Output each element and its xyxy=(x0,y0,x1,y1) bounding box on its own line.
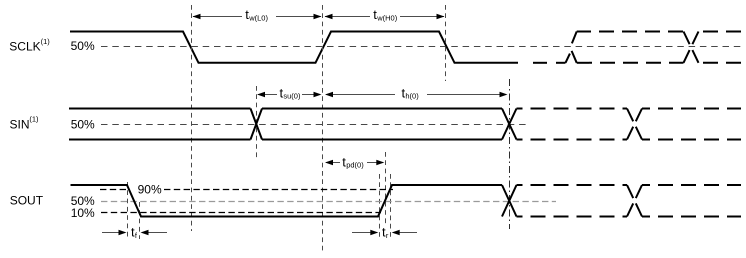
SCLK possible rising edge (dashed crossover style) xyxy=(566,32,577,63)
svg-text:50%: 50% xyxy=(71,39,95,53)
svg-text:w(L0): w(L0) xyxy=(248,13,268,22)
SCLK low dashed segment xyxy=(533,62,547,64)
svg-text:SIN: SIN xyxy=(10,118,30,132)
SOUT 90% dashed line xyxy=(100,189,393,191)
svg-text:50%: 50% xyxy=(71,117,95,131)
label tr xyxy=(382,225,389,240)
SOUT waveform solid segment xyxy=(71,185,503,217)
svg-text:f: f xyxy=(135,231,138,240)
dimension arrow tr xyxy=(352,230,417,236)
SIN top rail solid xyxy=(69,108,502,110)
vertical guide at SIN transition x=256 xyxy=(256,86,258,160)
SOUT crossover X2 (dashed style) xyxy=(627,185,642,217)
svg-text:pd(0): pd(0) xyxy=(346,161,364,170)
dimension arrow tw(L0) xyxy=(193,14,322,20)
svg-text:su(0): su(0) xyxy=(283,92,301,101)
SIN bottom rail solid xyxy=(69,139,502,141)
vertical guide at SCLK falling edge x=191 xyxy=(191,5,193,231)
label tw(H0) xyxy=(373,7,397,22)
label tpd(0) xyxy=(342,155,364,170)
label th(0) xyxy=(402,86,420,101)
SIN 50% reference dashed line xyxy=(101,124,529,126)
svg-text:90%: 90% xyxy=(138,182,162,196)
SOUT 10% dashed line xyxy=(101,212,381,214)
vertical guide at SCLK rising edge x=323 xyxy=(322,5,324,252)
dimension arrow tsu(0) xyxy=(257,92,322,98)
tick at SOUT rise 10% x=379.3 xyxy=(379,174,381,240)
dimension arrow tpd(0) xyxy=(325,160,384,166)
SIN crossover X2 xyxy=(502,109,517,140)
dimension arrow tw(H0) xyxy=(325,14,445,20)
tick at SOUT fall start x=127.2 xyxy=(127,182,129,239)
vertical guide at SCLK 2nd falling edge x=446 xyxy=(445,5,447,81)
signal name SIN xyxy=(10,115,40,132)
SIN trailing dashed rails xyxy=(642,109,741,140)
svg-text:SCLK: SCLK xyxy=(9,39,40,53)
svg-text:(1): (1) xyxy=(41,37,51,46)
label tsu(0) xyxy=(280,86,301,101)
SCLK waveform solid segment xyxy=(70,32,518,63)
signal name SCLK xyxy=(9,37,50,54)
SCLK 50% reference dashed line xyxy=(101,46,743,48)
vertical guide at SOUT 50% crossing x=385.5 xyxy=(385,152,387,226)
SCLK high rail after possible rise xyxy=(577,31,588,33)
SCLK trailing dashed rails xyxy=(699,32,742,63)
SIN crossover X3 (dashed style) xyxy=(627,109,642,140)
SOUT crossover X xyxy=(502,185,517,217)
svg-text:SOUT: SOUT xyxy=(10,194,44,208)
SOUT trailing dashed rails xyxy=(642,185,741,217)
svg-text:r: r xyxy=(386,231,389,240)
vertical dash-dot guide at SIN hold boundary x=509 xyxy=(509,79,511,229)
SIN dashed rails after X2 xyxy=(517,109,628,140)
tick at SOUT fall 10% x=139.5 xyxy=(139,202,141,239)
SCLK low rail after possible rise xyxy=(577,62,589,64)
dimension arrow tf xyxy=(102,230,167,236)
SCLK low short solid before possible rise xyxy=(556,62,566,64)
tick at SOUT rise 90% x=390.5 xyxy=(390,174,392,240)
svg-text:(1): (1) xyxy=(29,115,39,124)
SIN crossover X1 xyxy=(251,109,263,140)
label tf xyxy=(131,225,138,240)
dimension arrow th(0) xyxy=(325,92,508,98)
label tw(L0) xyxy=(245,7,268,22)
SCLK crossover X (dashed style) xyxy=(684,32,699,63)
SOUT 50% gray dashed line xyxy=(101,201,556,203)
SOUT dashed rails after X xyxy=(517,185,628,217)
svg-text:10%: 10% xyxy=(71,206,95,220)
svg-text:h(0): h(0) xyxy=(405,92,419,101)
svg-text:w(H0): w(H0) xyxy=(376,13,398,22)
